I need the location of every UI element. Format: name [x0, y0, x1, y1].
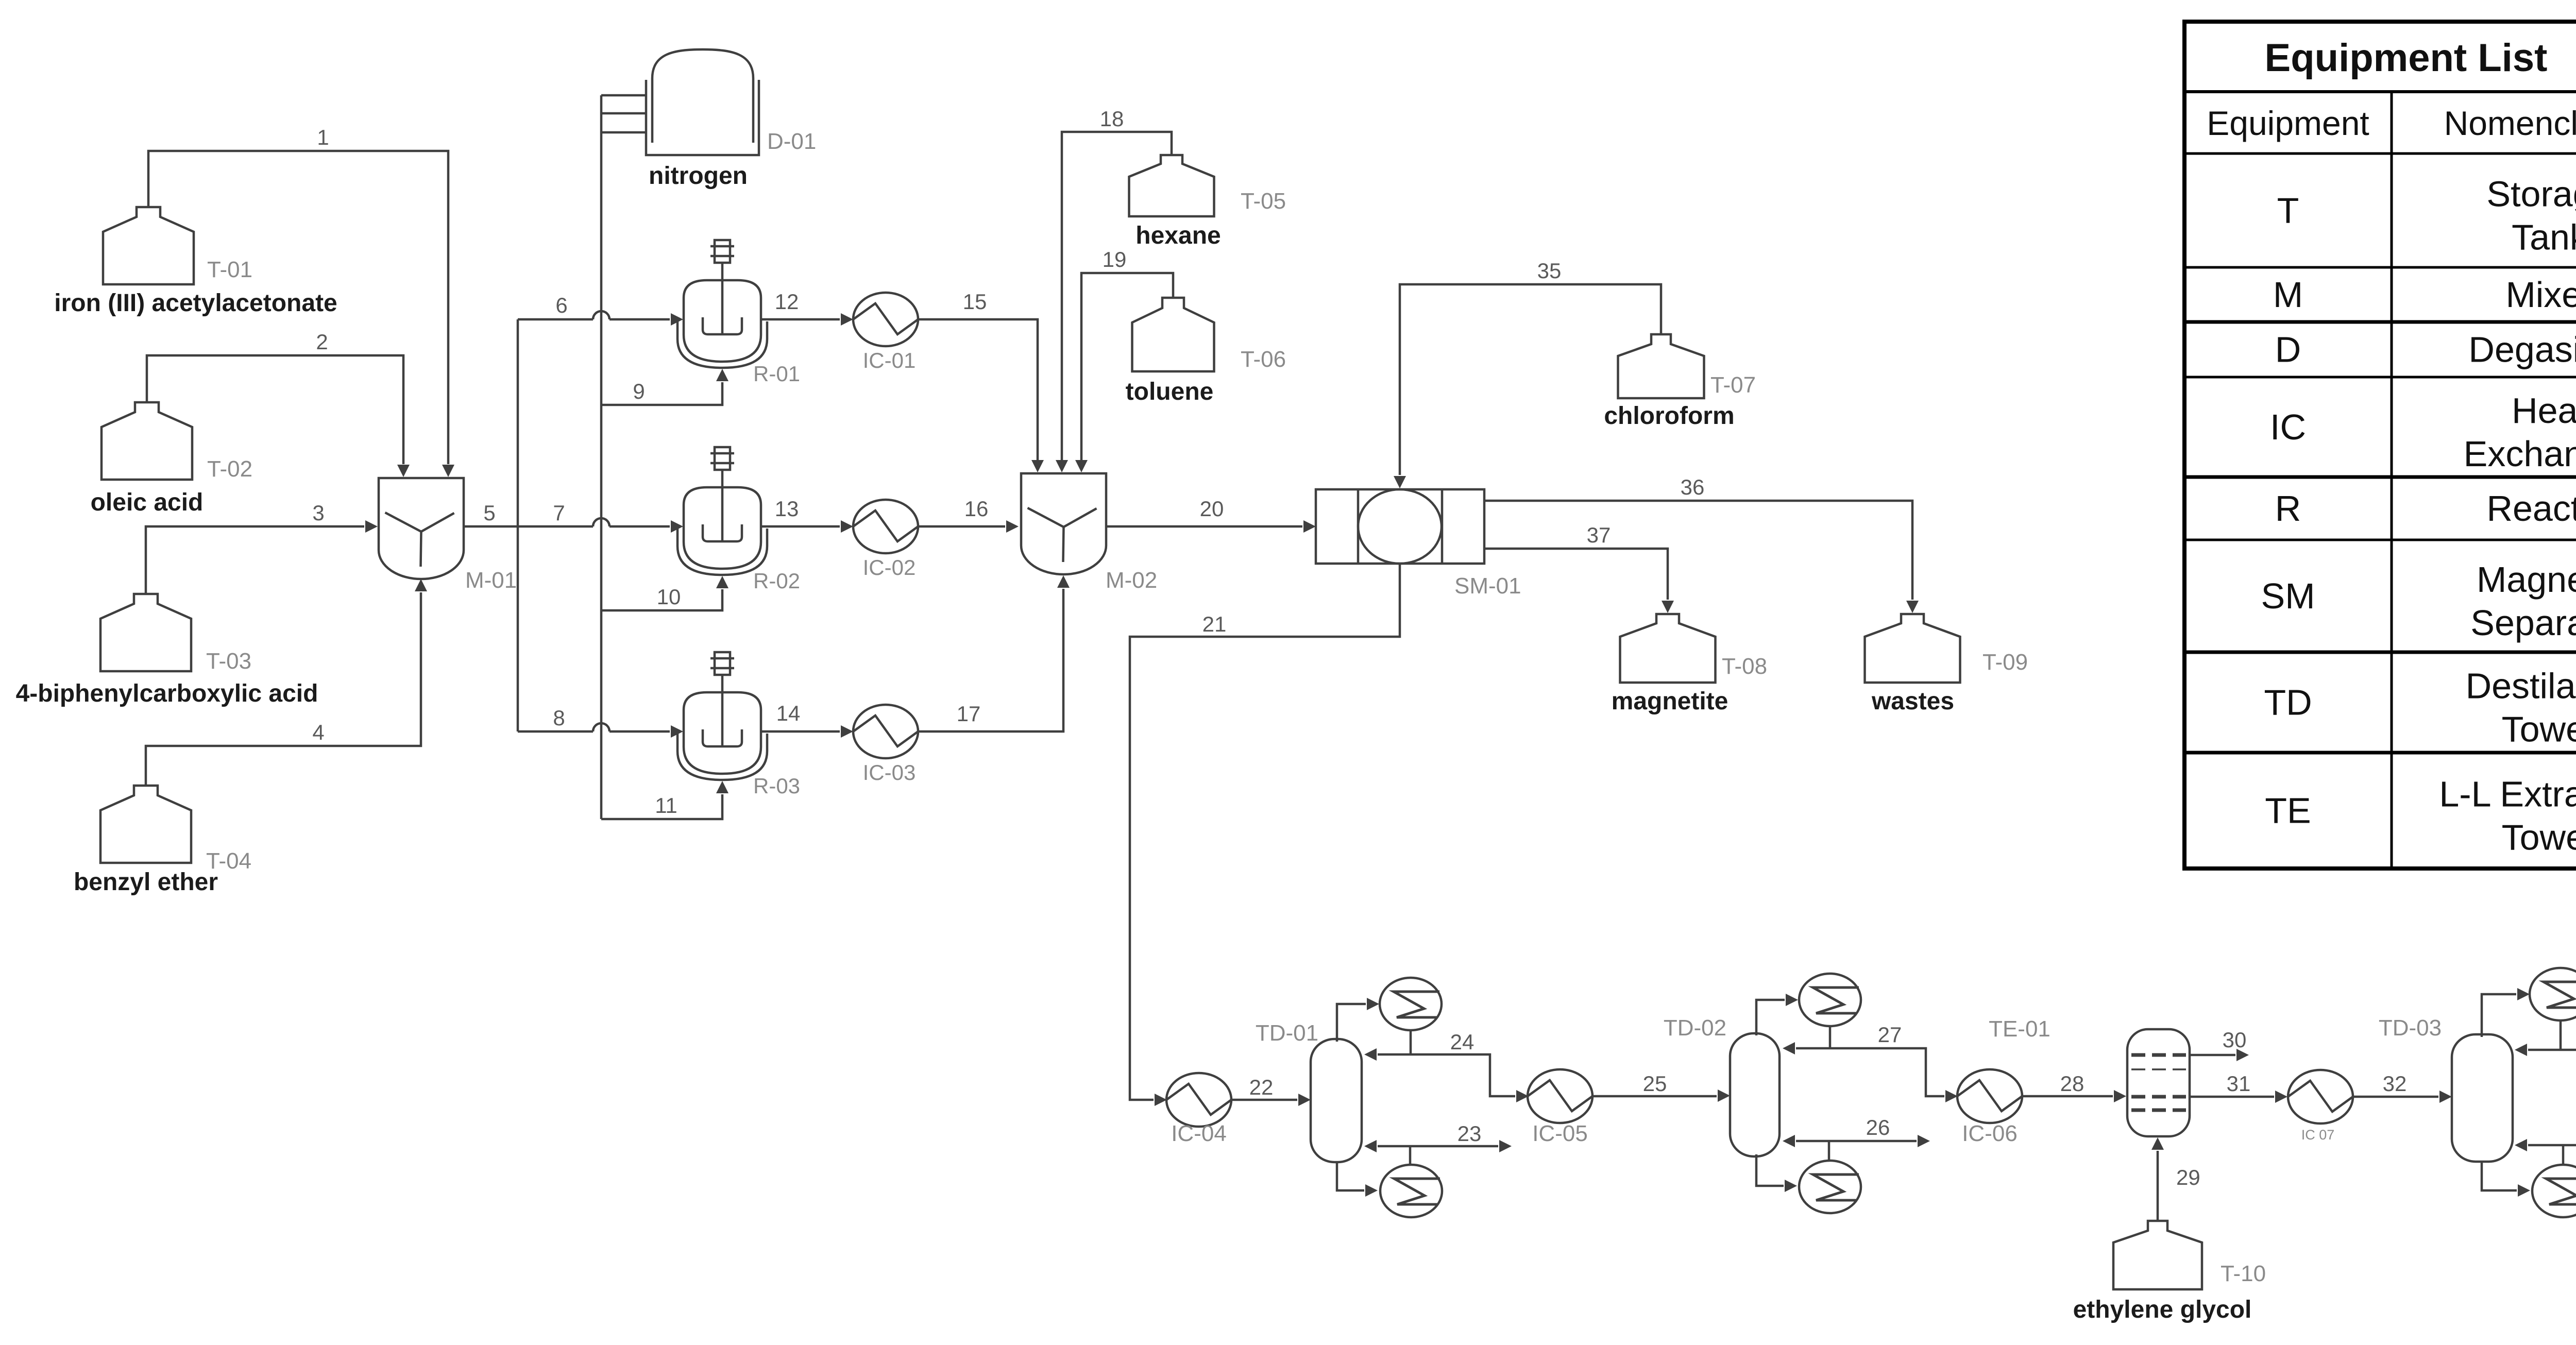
stream 26 [1783, 1115, 1930, 1162]
svg-text:23: 23 [1458, 1121, 1482, 1146]
svg-text:31: 31 [2227, 1071, 2251, 1096]
svg-text:19: 19 [1103, 247, 1127, 271]
svg-text:Equipment: Equipment [2207, 104, 2369, 142]
svg-text:R-01: R-01 [753, 362, 800, 386]
svg-text:oleic acid: oleic acid [91, 489, 204, 516]
svg-text:iron (III) acetylacetonate: iron (III) acetylacetonate [54, 290, 337, 317]
svg-text:R: R [2275, 488, 2301, 529]
storage tank T-08 [1620, 614, 1768, 683]
stream 31 [2190, 1071, 2287, 1103]
svg-text:13: 13 [775, 497, 799, 521]
svg-text:4: 4 [312, 720, 324, 744]
stream 18 [1056, 107, 1172, 472]
svg-text:Exchanger: Exchanger [2464, 434, 2576, 474]
stream 30 [2190, 1028, 2249, 1061]
svg-text:TD-02: TD-02 [1664, 1015, 1726, 1041]
stream 2 [147, 330, 410, 477]
svg-text:3: 3 [312, 501, 324, 525]
distillation tower TD-03 [2379, 1015, 2513, 1162]
svg-text:IC 07: IC 07 [2301, 1127, 2335, 1143]
TD-03 reboiler [2532, 1165, 2576, 1217]
svg-text:12: 12 [775, 290, 799, 314]
svg-text:37: 37 [1587, 523, 1611, 547]
TD-03 condenser [2530, 968, 2576, 1020]
svg-text:chloroform: chloroform [1604, 402, 1734, 430]
stream 20 [1106, 497, 1316, 533]
TD-02 reboiler [1799, 1161, 1861, 1213]
svg-text:26: 26 [1866, 1115, 1890, 1139]
svg-text:hexane: hexane [1136, 222, 1221, 249]
stream 4 [146, 579, 427, 786]
stream 25 [1592, 1071, 1730, 1102]
svg-text:T-07: T-07 [1710, 372, 1756, 398]
svg-text:7: 7 [553, 501, 565, 525]
TD-01 reboiler [1380, 1165, 1442, 1217]
svg-text:21: 21 [1202, 612, 1227, 636]
svg-text:magnetite: magnetite [1612, 688, 1728, 715]
TD-02 condenser [1799, 974, 1861, 1026]
svg-text:IC-06: IC-06 [1962, 1121, 2018, 1146]
svg-text:14: 14 [776, 701, 801, 725]
svg-text:toluene: toluene [1126, 378, 1214, 405]
svg-text:Mixer: Mixer [2505, 275, 2576, 315]
heat exchanger IC-07 [2288, 1070, 2353, 1143]
distillation tower TD-01 [1256, 1020, 1362, 1162]
svg-text:R-03: R-03 [753, 774, 800, 798]
svg-text:22: 22 [1249, 1075, 1274, 1099]
svg-text:TD: TD [2264, 683, 2312, 723]
storage tank T-07 [1618, 334, 1756, 398]
svg-text:9: 9 [633, 379, 645, 403]
stream 16 [918, 497, 1019, 533]
svg-text:16: 16 [964, 497, 989, 521]
stream 37 [1484, 523, 1674, 613]
label magnetite [1612, 688, 1728, 715]
svg-text:IC-02: IC-02 [863, 555, 916, 580]
stream 22 [1231, 1075, 1311, 1106]
svg-text:Tower: Tower [2502, 818, 2576, 858]
svg-text:24: 24 [1450, 1030, 1475, 1054]
stream 7 [518, 501, 683, 533]
stream 23 [1364, 1121, 1512, 1166]
svg-text:nitrogen: nitrogen [649, 162, 748, 190]
label benzyl ether [74, 869, 218, 896]
svg-text:IC-01: IC-01 [863, 348, 916, 372]
svg-text:4-biphenylcarboxylic acid: 4-biphenylcarboxylic acid [16, 680, 318, 707]
mixer M-02 [1021, 473, 1157, 593]
storage tank T-05 [1129, 155, 1286, 216]
stream 3 [146, 501, 378, 594]
svg-text:T-03: T-03 [206, 649, 251, 674]
svg-text:5: 5 [483, 501, 495, 525]
svg-text:L-L Extraction: L-L Extraction [2439, 774, 2576, 814]
stream 9 [601, 369, 728, 405]
svg-text:Tank: Tank [2512, 217, 2576, 258]
svg-text:D-01: D-01 [767, 129, 816, 154]
stream 8 [518, 706, 683, 738]
heat exchanger IC-01 [853, 293, 918, 372]
svg-text:wastes: wastes [1871, 688, 1954, 715]
storage tank T-09 [1865, 614, 2028, 683]
svg-text:IC: IC [2270, 407, 2306, 447]
stream 35 [1394, 259, 1661, 488]
degasifier D-01 [601, 49, 816, 155]
TD-01 condenser pipe [1337, 998, 1379, 1042]
svg-text:M-02: M-02 [1106, 568, 1157, 593]
label ethylene glycol [2073, 1296, 2252, 1323]
svg-text:TE-01: TE-01 [1989, 1016, 2050, 1042]
svg-text:T-10: T-10 [2221, 1261, 2266, 1286]
svg-text:17: 17 [957, 702, 981, 726]
svg-text:20: 20 [1200, 497, 1224, 521]
extraction tower TE-01 [1989, 1016, 2190, 1136]
svg-text:T-01: T-01 [207, 257, 252, 282]
storage tank T-06 [1132, 298, 1286, 372]
stream 32 [2353, 1071, 2452, 1103]
svg-text:Storage: Storage [2486, 174, 2576, 214]
reactor R-01 [677, 240, 800, 386]
svg-text:28: 28 [2060, 1071, 2084, 1096]
svg-text:IC-03: IC-03 [863, 760, 916, 785]
storage tank T-03 [100, 594, 251, 674]
svg-text:TD-01: TD-01 [1256, 1020, 1318, 1046]
TD-01 reboiler pipe [1337, 1162, 1378, 1197]
storage tank T-04 [100, 786, 251, 874]
stream 5 [464, 319, 518, 731]
storage tank T-01 [103, 207, 252, 284]
svg-text:11: 11 [655, 793, 677, 818]
svg-text:36: 36 [1681, 475, 1705, 499]
heat exchanger IC-06 [1957, 1069, 2022, 1146]
stream 14 [761, 701, 853, 738]
svg-text:SM-01: SM-01 [1454, 573, 1521, 599]
stream 19 [1075, 247, 1173, 472]
stream 13 [761, 497, 853, 533]
stream 6 [518, 293, 683, 326]
svg-text:35: 35 [1537, 259, 1562, 283]
svg-text:18: 18 [1100, 107, 1124, 131]
svg-text:8: 8 [553, 706, 565, 730]
svg-text:TE: TE [2265, 791, 2311, 831]
svg-text:M: M [2273, 275, 2303, 315]
svg-text:10: 10 [657, 585, 681, 609]
svg-text:benzyl ether: benzyl ether [74, 869, 218, 896]
svg-text:Separator: Separator [2470, 603, 2576, 643]
svg-text:15: 15 [963, 290, 987, 314]
storage tank T-02 [101, 402, 252, 482]
svg-text:IC-05: IC-05 [1532, 1121, 1588, 1146]
TD-03 condenser pipe [2482, 988, 2530, 1037]
svg-text:IC-04: IC-04 [1171, 1121, 1227, 1146]
svg-text:SM: SM [2261, 576, 2315, 616]
TD-01 condenser [1380, 978, 1442, 1030]
svg-text:32: 32 [2383, 1071, 2407, 1096]
stream 15 [918, 290, 1044, 472]
TD-02 reboiler pipe [1756, 1154, 1797, 1192]
stream 21 [1130, 564, 1400, 1106]
svg-text:2: 2 [316, 330, 328, 354]
storage tank T-10 [2113, 1221, 2266, 1289]
stream 11 [601, 781, 728, 819]
stream 17 [918, 575, 1070, 731]
label 4-biphenylcarboxylic acid [16, 680, 318, 707]
reactor R-03 [677, 652, 800, 798]
label hexane [1136, 222, 1221, 249]
stream 28 [2022, 1071, 2126, 1102]
svg-text:Nomenclature: Nomenclature [2444, 104, 2576, 142]
svg-text:Degasifier: Degasifier [2468, 330, 2576, 370]
heat exchanger IC-05 [1528, 1069, 1592, 1146]
svg-text:Magnetic: Magnetic [2477, 559, 2576, 600]
svg-text:25: 25 [1643, 1071, 1667, 1096]
stream 29 [2151, 1137, 2200, 1221]
label wastes [1871, 688, 1954, 715]
svg-text:Equipment List: Equipment List [2265, 36, 2548, 80]
stream 1 [148, 125, 454, 477]
svg-text:TD-03: TD-03 [2379, 1015, 2442, 1041]
label toluene [1126, 378, 1214, 405]
stream 33 [2515, 1119, 2576, 1166]
svg-text:T: T [2277, 191, 2299, 231]
svg-text:Heat: Heat [2512, 390, 2576, 431]
svg-text:Destilation: Destilation [2466, 666, 2576, 706]
svg-text:D: D [2275, 330, 2301, 370]
TD-03 reboiler pipe [2482, 1161, 2530, 1197]
svg-text:6: 6 [555, 293, 567, 317]
stream 24 [1364, 1030, 1529, 1102]
svg-text:T-05: T-05 [1241, 189, 1286, 214]
svg-text:Tower: Tower [2502, 709, 2576, 750]
svg-text:27: 27 [1878, 1023, 1902, 1047]
svg-text:ethylene glycol: ethylene glycol [2073, 1296, 2252, 1323]
label iron (III) acetylacetonate [54, 290, 337, 317]
svg-text:T-08: T-08 [1722, 654, 1767, 679]
mixer M-01 [379, 478, 517, 593]
magnetic separator SM-01 [1316, 489, 1521, 599]
svg-text:T-02: T-02 [207, 456, 252, 482]
svg-text:30: 30 [2223, 1028, 2247, 1052]
heat exchanger IC-04 [1166, 1073, 1231, 1146]
heat exchanger IC-03 [853, 705, 918, 785]
stream 27 [1783, 1023, 1958, 1102]
svg-text:Reactor: Reactor [2486, 488, 2576, 529]
svg-text:T-06: T-06 [1241, 347, 1286, 372]
equipment list table [2184, 22, 2576, 869]
label chloroform [1604, 402, 1734, 430]
distillation tower TD-02 [1664, 1015, 1780, 1156]
stream 12 [761, 290, 853, 326]
stream 34 [2515, 966, 2576, 1056]
svg-text:29: 29 [2176, 1165, 2200, 1189]
svg-text:M-01: M-01 [465, 568, 517, 593]
stream 36 [1484, 475, 1919, 613]
heat exchanger IC-02 [853, 500, 918, 580]
label nitrogen [649, 162, 748, 190]
reactor R-02 [677, 447, 800, 593]
stream 10 [601, 576, 728, 610]
label oleic acid [91, 489, 204, 516]
svg-text:T-09: T-09 [1982, 650, 2028, 675]
svg-text:1: 1 [317, 125, 329, 149]
TD-02 condenser pipe [1756, 994, 1798, 1035]
svg-text:R-02: R-02 [753, 569, 800, 593]
nitrogen bus line [600, 95, 603, 819]
